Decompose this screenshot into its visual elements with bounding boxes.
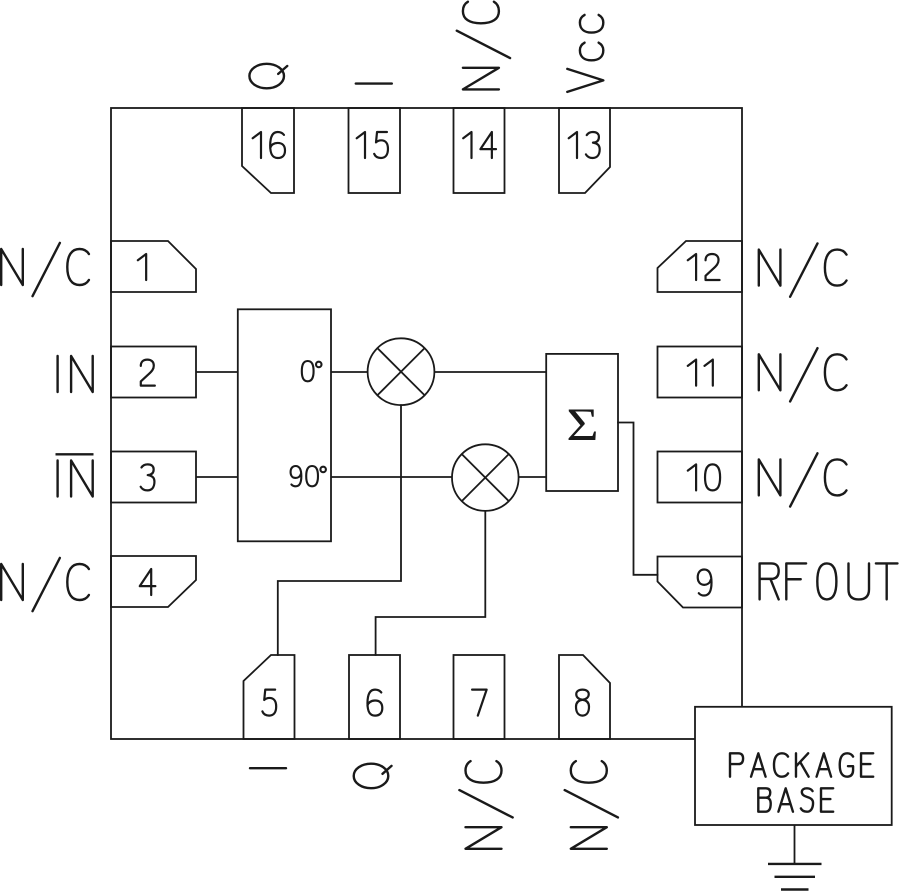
label Q pin 6 bbox=[354, 764, 392, 788]
pin 3 number bbox=[141, 464, 155, 490]
pin 4 pad bbox=[111, 556, 196, 607]
label PACKAGE bbox=[730, 753, 873, 776]
label IN pin 2 bbox=[58, 356, 93, 392]
label N/C pin 7 bbox=[459, 761, 512, 849]
label N/C pin 11 bbox=[759, 348, 847, 401]
label 90 deg bbox=[291, 466, 326, 486]
pin 1 number bbox=[138, 254, 146, 280]
pin 9 number bbox=[698, 570, 712, 596]
pin 10 number bbox=[688, 464, 720, 490]
label N/C pin 14 bbox=[457, 2, 510, 90]
pin 9 pad bbox=[658, 557, 743, 608]
wire pin3 to splitter bbox=[196, 476, 238, 478]
package outline U1 bbox=[111, 108, 742, 739]
pin 14 pad bbox=[454, 108, 505, 193]
pin 16 number bbox=[253, 132, 285, 158]
wire mixer M1 LO to pin 5 bbox=[278, 405, 401, 655]
pin 10 pad bbox=[658, 452, 743, 503]
pin 11 number bbox=[688, 360, 713, 386]
pin 4 number bbox=[140, 569, 156, 595]
pin 6 pad bbox=[349, 655, 400, 739]
pin 14 number bbox=[463, 132, 496, 158]
pin 5 pad bbox=[244, 655, 295, 739]
pin 8 number bbox=[576, 690, 589, 716]
wire mixer M2 to summer bbox=[519, 476, 547, 478]
pin 5 number bbox=[262, 690, 276, 716]
pin 6 number bbox=[367, 690, 382, 716]
pin 2 pad bbox=[111, 347, 196, 398]
label IN-bar pin 3 bbox=[58, 461, 93, 497]
wire pin2 to splitter bbox=[196, 371, 238, 373]
label I pin 5 bbox=[250, 765, 286, 772]
pin 16 pad bbox=[242, 108, 294, 193]
ground symbol bbox=[768, 864, 822, 890]
label N/C pin 10 bbox=[759, 453, 847, 506]
wire summer to pin 9 bbox=[618, 423, 658, 575]
wire mixer M2 LO to pin 6 bbox=[376, 511, 486, 655]
mixer M1 bbox=[368, 338, 435, 405]
overline for IN-bar bbox=[56, 453, 94, 455]
svg-text:Σ: Σ bbox=[566, 399, 598, 451]
pin 8 pad bbox=[559, 655, 610, 739]
pin 15 pad bbox=[349, 108, 401, 193]
pin 12 pad bbox=[658, 241, 743, 292]
label Q pin 16 bbox=[249, 64, 287, 88]
label 0 deg bbox=[302, 361, 322, 381]
pin 13 number bbox=[569, 132, 600, 158]
summer block bbox=[546, 354, 618, 491]
pin 15 number bbox=[357, 132, 388, 158]
pin 12 number bbox=[688, 254, 720, 280]
label RFOUT pin 9 bbox=[760, 563, 898, 599]
label Vcc pin 13 bbox=[567, 15, 603, 92]
wire mixer M1 to summer bbox=[434, 371, 546, 373]
label N/C pin 8 bbox=[565, 761, 618, 849]
label BASE bbox=[758, 788, 833, 811]
label N/C pin 12 bbox=[759, 243, 847, 296]
label N/C pin 1 bbox=[1, 243, 89, 296]
pin 7 number bbox=[472, 690, 487, 716]
90-degree splitter block bbox=[238, 309, 331, 541]
label I pin 15 bbox=[356, 80, 392, 87]
wire splitter 0deg to mixer M1 bbox=[331, 371, 368, 373]
pin 1 pad bbox=[111, 241, 196, 292]
label N/C pin 4 bbox=[1, 558, 89, 611]
wire package base to ground bbox=[794, 825, 796, 864]
mixer M2 bbox=[452, 444, 519, 511]
pin 11 pad bbox=[658, 347, 743, 398]
package base box bbox=[695, 707, 892, 825]
pin 2 number bbox=[141, 360, 155, 386]
pin 13 pad bbox=[559, 108, 610, 193]
wire splitter 90deg to mixer M2 bbox=[331, 476, 452, 478]
pin 7 pad bbox=[454, 655, 505, 739]
pin 3 pad bbox=[111, 452, 196, 503]
